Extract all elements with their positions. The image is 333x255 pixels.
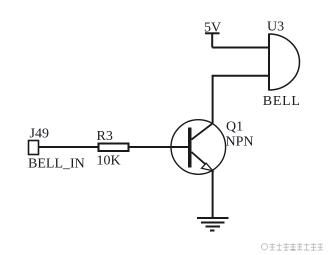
svg-text:10K: 10K (97, 154, 121, 169)
wire J49 to R3 (39, 146, 99, 148)
ground (197, 218, 229, 231)
wire collector to bell lower pin (212, 75, 269, 77)
watermark (261, 243, 323, 250)
svg-text:J49: J49 (30, 127, 49, 142)
svg-text:R3: R3 (97, 129, 113, 144)
wire emitter vertical (212, 171, 214, 218)
transistor Q1 collector line (192, 123, 213, 139)
svg-text:BELL_IN: BELL_IN (28, 157, 85, 172)
power 5V stub (211, 33, 213, 47)
buzzer U3 flat edge (268, 34, 270, 90)
resistor R3 (99, 144, 129, 152)
transistor Q1 emitter line (192, 152, 206, 164)
svg-text:BELL: BELL (263, 94, 301, 109)
transistor Q1 circle (171, 120, 226, 175)
transistor Q1 emitter arrow (202, 163, 213, 171)
wire collector vertical (212, 76, 214, 124)
transistor Q1 base bar (188, 128, 192, 168)
power 5V bar (205, 32, 220, 34)
svg-text:Q1: Q1 (226, 120, 243, 135)
buzzer U3 body (269, 34, 300, 90)
wire R3 to base (129, 146, 189, 148)
wire 5V to bell upper pin (212, 47, 269, 49)
svg-text:NPN: NPN (226, 135, 254, 150)
connector J49 (29, 141, 39, 155)
svg-text:U3: U3 (267, 20, 284, 35)
